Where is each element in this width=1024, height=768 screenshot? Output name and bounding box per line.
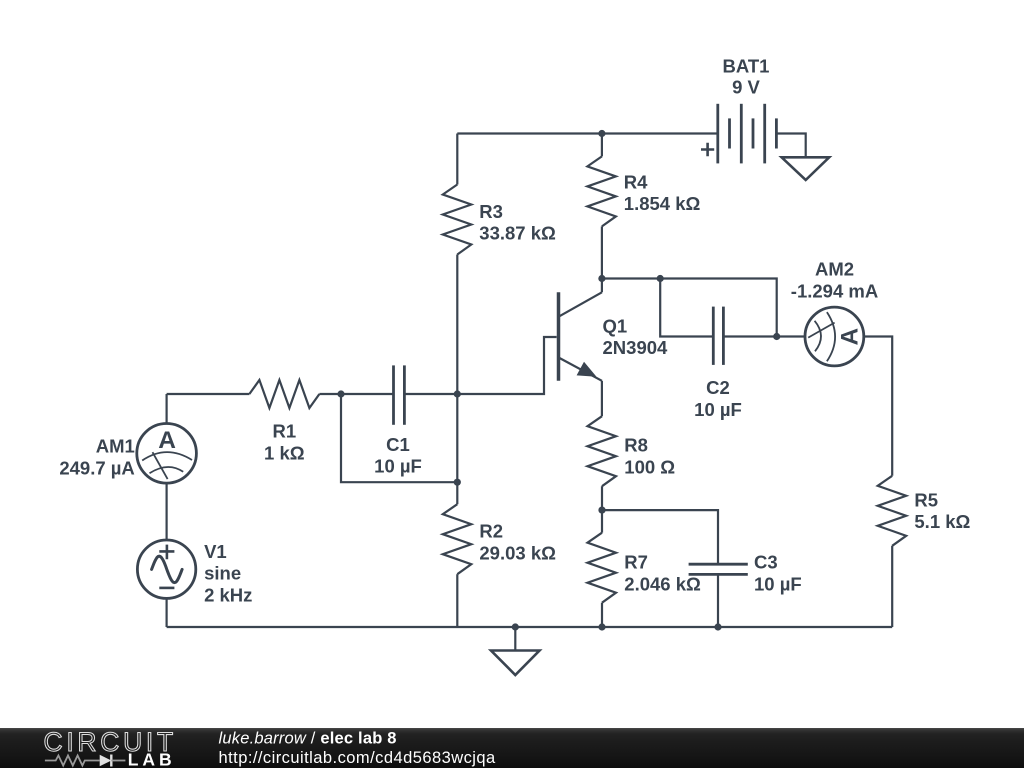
wire V1 bottom to ground rail	[166, 598, 168, 627]
svg-text:sine: sine	[204, 563, 241, 584]
svg-text:R1: R1	[272, 421, 296, 442]
wire top rail from R3 top to R4 node	[457, 132, 602, 134]
node bias lower	[454, 479, 461, 486]
svg-text:R4: R4	[624, 171, 648, 192]
wire C2 node to AM2	[777, 335, 805, 337]
svg-text:luke.barrow / elec lab 8: luke.barrow / elec lab 8	[219, 730, 397, 748]
resistor R2	[443, 504, 556, 574]
svg-text:R3: R3	[479, 201, 503, 222]
resistor R1	[249, 380, 319, 463]
svg-text:LAB: LAB	[128, 750, 176, 768]
svg-text:Q1: Q1	[603, 315, 628, 336]
wire R5 bottom to ground rail	[891, 546, 893, 627]
svg-text:10 µF: 10 µF	[754, 573, 802, 594]
resistor R8	[588, 416, 676, 486]
node top rail / R4	[598, 130, 605, 137]
wire C1 bypass loop down-right	[341, 394, 457, 482]
source V1	[137, 540, 252, 605]
wire R3 bottom to base node	[456, 255, 458, 395]
wire R4 bottom to collector node	[601, 226, 603, 278]
wire lower node to R2 top	[456, 482, 458, 504]
wire AM1 to V1	[166, 483, 168, 540]
node collector	[598, 275, 605, 282]
resistor R5	[878, 476, 971, 546]
capacitor C3	[689, 552, 802, 595]
wire node to C1 left plate	[341, 393, 394, 395]
wire C1 right plate to base step	[404, 337, 556, 394]
svg-text:10 µF: 10 µF	[374, 456, 422, 477]
node C2 loop left	[657, 275, 664, 282]
svg-text:C2: C2	[706, 377, 730, 398]
svg-text:-1.294 mA: -1.294 mA	[791, 281, 878, 302]
svg-text:AM2: AM2	[815, 259, 854, 280]
wire C2 right lead	[723, 335, 776, 337]
wire C3 bottom lead	[717, 574, 719, 627]
wire R2 bottom to ground rail	[456, 574, 458, 627]
svg-text:A: A	[158, 427, 176, 454]
wire base node to lower node	[456, 394, 458, 482]
wire collector node to C2 loop node	[602, 277, 660, 279]
svg-text:33.87 kΩ: 33.87 kΩ	[479, 223, 556, 244]
svg-text:R7: R7	[624, 552, 648, 573]
wire ground stub bottom center	[514, 627, 516, 651]
svg-text:5.1 kΩ: 5.1 kΩ	[914, 511, 970, 532]
svg-text:R2: R2	[479, 521, 503, 542]
svg-text:249.7 µA: 249.7 µA	[59, 458, 134, 479]
wire emitter node to C3 branch	[602, 510, 718, 564]
resistor R3	[443, 185, 556, 255]
svg-text:10 µF: 10 µF	[694, 399, 742, 420]
wire top rail from R4 node to battery left plate	[602, 132, 718, 134]
wire R7 bottom to ground rail	[601, 603, 603, 627]
node R7 bottom	[598, 623, 605, 630]
wire C2 left lead down	[660, 279, 713, 337]
svg-text:R8: R8	[624, 435, 648, 456]
node C2 right	[773, 333, 780, 340]
svg-text:BAT1: BAT1	[723, 56, 770, 77]
wire emitter node to R7 top	[601, 510, 603, 533]
wire AM2 to R5 corner	[864, 337, 892, 476]
node emitter	[598, 507, 605, 514]
resistor R7	[588, 533, 702, 603]
svg-text:29.03 kΩ: 29.03 kΩ	[479, 542, 556, 563]
svg-text:2N3904: 2N3904	[603, 337, 669, 358]
node ground stub	[512, 623, 519, 630]
wire AM1 corner to R1	[167, 393, 250, 395]
wire source branch left vertical	[166, 394, 168, 424]
wire C2 bypass loop top	[660, 279, 777, 337]
svg-text:1 kΩ: 1 kΩ	[264, 442, 305, 463]
ground (battery)	[782, 157, 830, 180]
svg-text:A: A	[837, 328, 864, 346]
node base bias	[454, 390, 461, 397]
resistor R4	[587, 156, 700, 226]
node R1 / C1	[337, 390, 344, 397]
svg-text:C3: C3	[754, 552, 778, 573]
capacitor C2	[694, 307, 742, 420]
svg-text:C1: C1	[386, 434, 410, 455]
wire bottom ground rail	[167, 626, 893, 628]
node C3 bottom	[714, 623, 721, 630]
ammeter AM2	[791, 259, 878, 366]
battery BAT1	[701, 56, 776, 164]
svg-text:AM1: AM1	[96, 436, 135, 457]
wire R4 top lead	[601, 134, 603, 157]
svg-text:1.854 kΩ: 1.854 kΩ	[624, 193, 701, 214]
ammeter AM1	[59, 424, 196, 484]
svg-text:9 V: 9 V	[732, 77, 760, 98]
ground (bottom rail)	[491, 651, 540, 676]
svg-text:http://circuitlab.com/cd4d5683: http://circuitlab.com/cd4d5683wcjqa	[219, 749, 497, 767]
capacitor C1	[374, 365, 422, 476]
wire R8 bottom to emitter node	[601, 486, 603, 510]
wire R1 to node	[319, 393, 341, 395]
svg-text:V1: V1	[204, 541, 227, 562]
svg-text:100 Ω: 100 Ω	[624, 456, 675, 477]
svg-text:2 kHz: 2 kHz	[204, 584, 252, 605]
transistor Q1	[559, 279, 669, 417]
svg-text:2.046 kΩ: 2.046 kΩ	[624, 573, 701, 594]
wire battery right to ground stub	[776, 134, 805, 158]
svg-text:R5: R5	[914, 489, 938, 510]
logo CircuitLab	[44, 727, 177, 768]
wire R3 top lead	[456, 134, 458, 185]
